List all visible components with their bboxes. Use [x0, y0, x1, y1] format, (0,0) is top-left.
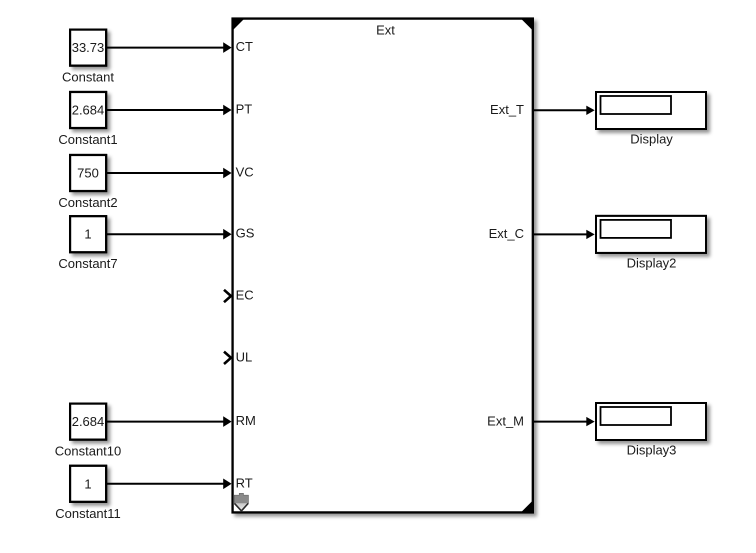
svg-text:GS: GS — [236, 226, 255, 241]
wire Ext_M to Display3 — [534, 417, 595, 426]
display block Display — [596, 92, 706, 129]
svg-text:Constant11: Constant11 — [55, 506, 121, 521]
constant block Constant1 value 2.684 — [70, 92, 106, 128]
corner mark bottom-right — [520, 500, 534, 514]
svg-text:Display3: Display3 — [627, 442, 677, 457]
svg-text:Ext: Ext — [376, 23, 395, 38]
wire Constant2 to VC — [107, 168, 232, 179]
wire Ext_T to Display — [534, 106, 595, 115]
svg-text:Display2: Display2 — [627, 255, 677, 270]
svg-text:UL: UL — [236, 349, 253, 364]
svg-text:RT: RT — [236, 475, 253, 490]
corner mark top-left — [232, 18, 246, 32]
constant block Constant11 value 1 — [70, 466, 106, 502]
svg-text:1: 1 — [84, 476, 91, 491]
svg-text:PT: PT — [236, 101, 253, 116]
constant block Constant10 value 2.684 — [70, 404, 106, 440]
svg-text:Ext_C: Ext_C — [489, 226, 524, 241]
svg-text:VC: VC — [236, 164, 254, 179]
svg-text:2.684: 2.684 — [72, 414, 105, 429]
svg-text:1: 1 — [84, 227, 91, 242]
svg-text:Constant2: Constant2 — [58, 195, 117, 210]
wire Constant11 to RT — [107, 479, 232, 490]
wire Constant1 to PT — [107, 105, 232, 116]
svg-text:Constant1: Constant1 — [58, 132, 117, 147]
svg-text:2.684: 2.684 — [72, 103, 105, 118]
constant block Constant7 value 1 — [70, 216, 106, 252]
constant block Constant2 value 750 — [70, 155, 106, 191]
display block Display2 — [596, 216, 706, 253]
constant block Constant value 33.73 — [70, 30, 106, 66]
corner mark top-right — [520, 18, 534, 32]
svg-text:EC: EC — [236, 288, 254, 303]
svg-text:Constant7: Constant7 — [58, 256, 117, 271]
svg-text:RM: RM — [236, 413, 256, 428]
svg-text:Constant10: Constant10 — [55, 444, 122, 459]
wire Constant7 to GS — [107, 229, 232, 240]
display block Display3 — [596, 403, 706, 440]
wire Constant10 to RM — [107, 416, 232, 427]
unconnected input UL — [224, 352, 231, 364]
svg-text:Constant: Constant — [62, 70, 114, 85]
svg-text:CT: CT — [236, 39, 253, 54]
subsystem U1 "Ext" — [233, 19, 533, 513]
wire Constant to CT — [107, 42, 232, 53]
svg-text:Display: Display — [630, 131, 673, 146]
svg-text:750: 750 — [77, 166, 99, 181]
svg-text:Ext_M: Ext_M — [487, 413, 524, 428]
unconnected input EC — [224, 290, 231, 302]
wire Ext_C to Display2 — [534, 230, 595, 239]
svg-text:Ext_T: Ext_T — [490, 102, 524, 117]
svg-text:33.73: 33.73 — [72, 40, 105, 55]
badge library-link — [234, 493, 248, 511]
